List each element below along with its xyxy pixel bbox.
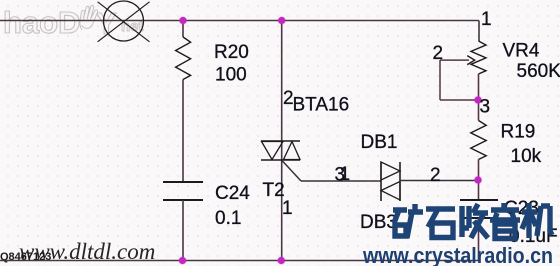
svg-text:www.crystalradio.cn: www.crystalradio.cn [362, 243, 553, 266]
svg-text:100: 100 [215, 65, 247, 86]
VR4 wiper arrowhead [467, 56, 475, 65]
junction dot bottom left [178, 256, 187, 265]
svg-text:10k: 10k [511, 146, 542, 167]
lamp EL1 circle [104, 1, 144, 41]
wire: middle branch from top wire down to triac [281, 21, 283, 142]
svg-text:R20: R20 [214, 42, 249, 63]
resistor R20 zigzag [176, 37, 191, 80]
triac T2 left triangle [262, 142, 284, 160]
resistor R19 zigzag [471, 121, 486, 160]
junction dot top left node [179, 16, 188, 25]
junction dot node 2 [474, 176, 483, 185]
potentiometer VR4 zigzag [471, 41, 486, 74]
svg-text:560K: 560K [517, 61, 560, 82]
lamp X stroke 1 [98, 2, 150, 42]
capacitor C24 top plate [163, 181, 203, 183]
svg-text:2: 2 [433, 43, 444, 64]
svg-text:1: 1 [340, 164, 351, 185]
char shi [426, 209, 455, 238]
char kuang [393, 204, 423, 238]
svg-text:BTA16: BTA16 [293, 95, 350, 116]
wire: left branch down from top wire to R20 [182, 21, 184, 38]
wire: VR4 bottom lead [478, 74, 480, 100]
wire: R19 bottom to node 2 [478, 160, 480, 181]
capacitor C24 bottom plate [163, 199, 203, 201]
wire: bottom rail [0, 260, 479, 262]
svg-text:C24: C24 [215, 183, 250, 204]
svg-text:R19: R19 [501, 122, 536, 143]
diac DB3 left bar [380, 162, 382, 201]
char yin [490, 203, 520, 239]
capacitor C23 top plate [460, 199, 498, 201]
char ji [522, 203, 552, 238]
svg-text:haoD: haoD [3, 5, 81, 40]
junction dot bottom middle [277, 256, 286, 265]
capacitor C23 bottom plate [460, 217, 498, 219]
svg-text:DB3: DB3 [360, 212, 397, 233]
wire: diac right to junction [400, 180, 478, 182]
svg-text:VR4: VR4 [503, 41, 540, 62]
wire: triac gate diagonal [282, 161, 301, 182]
wire: C23 bottom lead to bottom rail [478, 218, 480, 261]
wire: triac MT1 down to bottom rail [281, 141, 283, 261]
wire: gate horizontal to diac [301, 180, 381, 182]
svg-text:1: 1 [282, 198, 293, 219]
wire: wiper loop bottom horizontal to node 3 [440, 99, 478, 101]
wire: VR4 wiper horizontal [440, 59, 469, 61]
triac T2 right triangle [284, 142, 301, 160]
watermark haoDIY.net top-left [3, 5, 144, 41]
diac DB3 upper triangle [381, 162, 400, 180]
svg-text:DB1: DB1 [361, 132, 398, 153]
wire: node2 down to C23 [478, 180, 480, 200]
junction dot top middle node [277, 16, 286, 25]
wire: right vertical from top corner to VR4 [478, 21, 480, 42]
wire: R20 bottom to C24 [182, 80, 184, 183]
lamp X stroke 2 [98, 2, 150, 42]
svg-text:2: 2 [430, 165, 441, 186]
wire: wiper loop left vertical [439, 60, 441, 100]
watermark 矿石收音机 crystalradio [393, 203, 552, 239]
triac T2 bottom bar [261, 159, 300, 161]
wire: C24 bottom lead to bottom rail [182, 200, 184, 261]
wire: top horizontal L line [0, 20, 479, 22]
svg-text:3: 3 [480, 97, 491, 118]
diac DB3 right bar [399, 162, 401, 201]
svg-text:1: 1 [481, 9, 492, 30]
diac DB3 lower triangle [381, 182, 400, 201]
char shou [462, 204, 488, 238]
triac T2 top bar [261, 140, 300, 142]
svg-text:0.1: 0.1 [215, 208, 241, 229]
junction dot node 3 [474, 96, 483, 105]
wire: node3 to R19 [478, 100, 480, 121]
